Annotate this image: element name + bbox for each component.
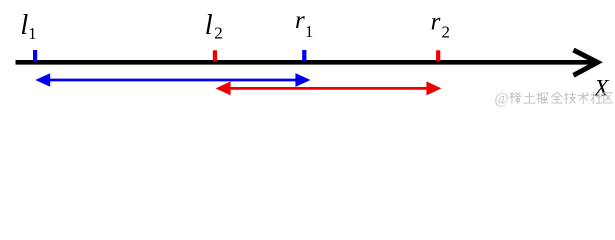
svg-text:r: r: [295, 7, 305, 34]
svg-text:1: 1: [305, 22, 313, 41]
axis X shaft: [16, 60, 597, 65]
tick l1 (blue): [33, 50, 37, 62]
svg-text:2: 2: [442, 23, 451, 42]
watermark char 稀: [510, 93, 521, 104]
watermark char 技: [565, 92, 576, 103]
watermark "@稀土掘金技术社区": [494, 91, 612, 108]
svg-text:l: l: [20, 10, 28, 41]
svg-text:r: r: [431, 9, 441, 36]
svg-text:1: 1: [28, 24, 36, 43]
blue interval arrow [l1,r1]: [35, 73, 310, 87]
tick r1 (blue): [302, 50, 306, 62]
svg-text:2: 2: [214, 24, 223, 43]
tick l2 (red): [213, 50, 217, 61]
label l1: [20, 10, 36, 43]
label l2: [205, 10, 223, 42]
watermark char 术: [578, 92, 589, 103]
label X (axis name): [593, 75, 610, 101]
label r2: [431, 9, 450, 42]
red interval arrow [l2,r2]: [216, 81, 442, 95]
svg-text:@: @: [494, 91, 508, 108]
watermark char 金: [552, 92, 562, 103]
axis arrowhead: [574, 50, 598, 75]
tick r2 (red): [436, 50, 440, 61]
watermark char 土: [524, 93, 535, 104]
label r1: [295, 7, 313, 41]
watermark char 区: [604, 93, 613, 103]
watermark char 掘: [537, 92, 548, 103]
watermark char 社: [591, 92, 602, 103]
svg-text:l: l: [205, 10, 213, 41]
